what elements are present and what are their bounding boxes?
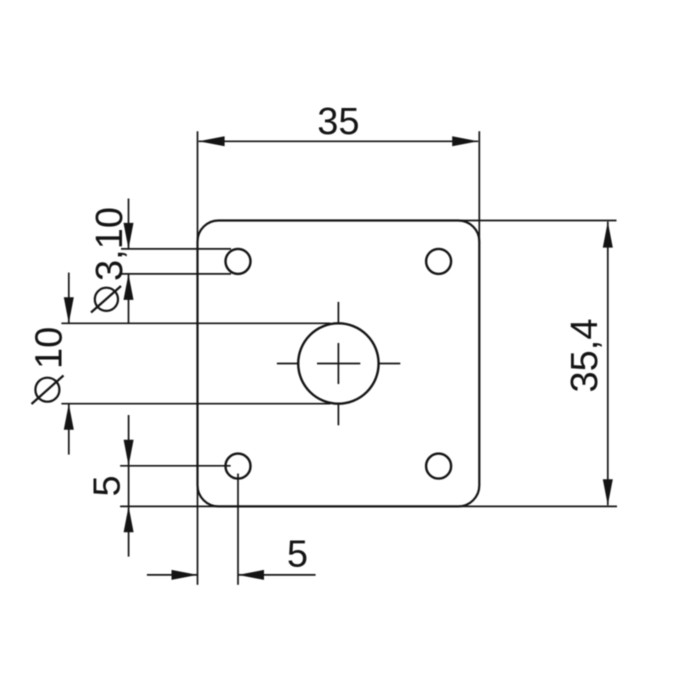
arrow right of dim 35 (452, 136, 478, 146)
svg-text:5: 5 (87, 475, 129, 496)
arrow lower of dim d10 (64, 404, 74, 430)
extension line top edge to the right (457, 220, 617, 222)
extension line top tangent of center hole (61, 322, 330, 324)
dimension line 35 (top) (199, 140, 479, 142)
diameter symbol of d10 (32, 376, 64, 405)
arrow upper of dim 5 left (124, 440, 134, 466)
extension line right edge upper (478, 131, 480, 243)
svg-text:10: 10 (29, 327, 71, 369)
arrow upper of dim d3,10 (124, 223, 134, 249)
arrow left of dim 35 (199, 136, 225, 146)
dimension line 5 bottom left leg (147, 574, 198, 576)
dimension line 5 bottom right leg (238, 574, 316, 576)
svg-text:35: 35 (317, 101, 359, 143)
svg-text:35,4: 35,4 (564, 319, 606, 393)
centerline cross of center hole (277, 302, 400, 425)
hole H1 top-left (d 3.10) (226, 249, 251, 274)
arrow lower of dim d3,10 (124, 274, 134, 300)
hole H3 bottom-left (d 3.10) (226, 454, 251, 479)
dimension line d10 upper leg (68, 273, 70, 324)
svg-text:5: 5 (287, 534, 308, 576)
dimension line d10 lower leg (68, 404, 70, 455)
dimension line d3,10 lower leg (128, 274, 130, 324)
extension line bottom edge to the left (120, 505, 220, 507)
dimension line 35,4 (right) (607, 222, 609, 506)
arrow right of dim 5 bottom (238, 570, 264, 580)
extension line at center of hole H3 (horizontal) (120, 465, 231, 467)
svg-text:3,10: 3,10 (89, 207, 131, 281)
extension line bottom tangent of hole H1 (121, 273, 231, 275)
arrow bottom of dim 35,4 (603, 479, 613, 505)
extension line left edge lower (197, 484, 199, 585)
hole H4 bottom-right (d 3.10) (426, 454, 451, 479)
extension line left edge upper (197, 131, 199, 243)
dimension line d3,10 upper leg (128, 199, 130, 249)
arrow top of dim 35,4 (603, 222, 613, 248)
arrow left of dim 5 bottom (172, 570, 198, 580)
extension line bottom tangent of center hole (61, 403, 330, 405)
arrow upper of dim d10 (64, 297, 74, 323)
extension line at center of hole H3 (vertical) (237, 474, 239, 585)
dimension line 5 left (128, 415, 130, 557)
hole H5 center (d 10) (298, 323, 378, 403)
arrow lower of dim 5 left (124, 506, 134, 532)
extension line top tangent of hole H1 (121, 248, 231, 250)
extension line bottom edge to the right (457, 505, 617, 507)
plate outline (rounded square 35 x 35.4) (198, 221, 480, 507)
hole H2 top-right (d 3.10) (426, 249, 451, 274)
diameter symbol of d3,10 (91, 286, 121, 313)
